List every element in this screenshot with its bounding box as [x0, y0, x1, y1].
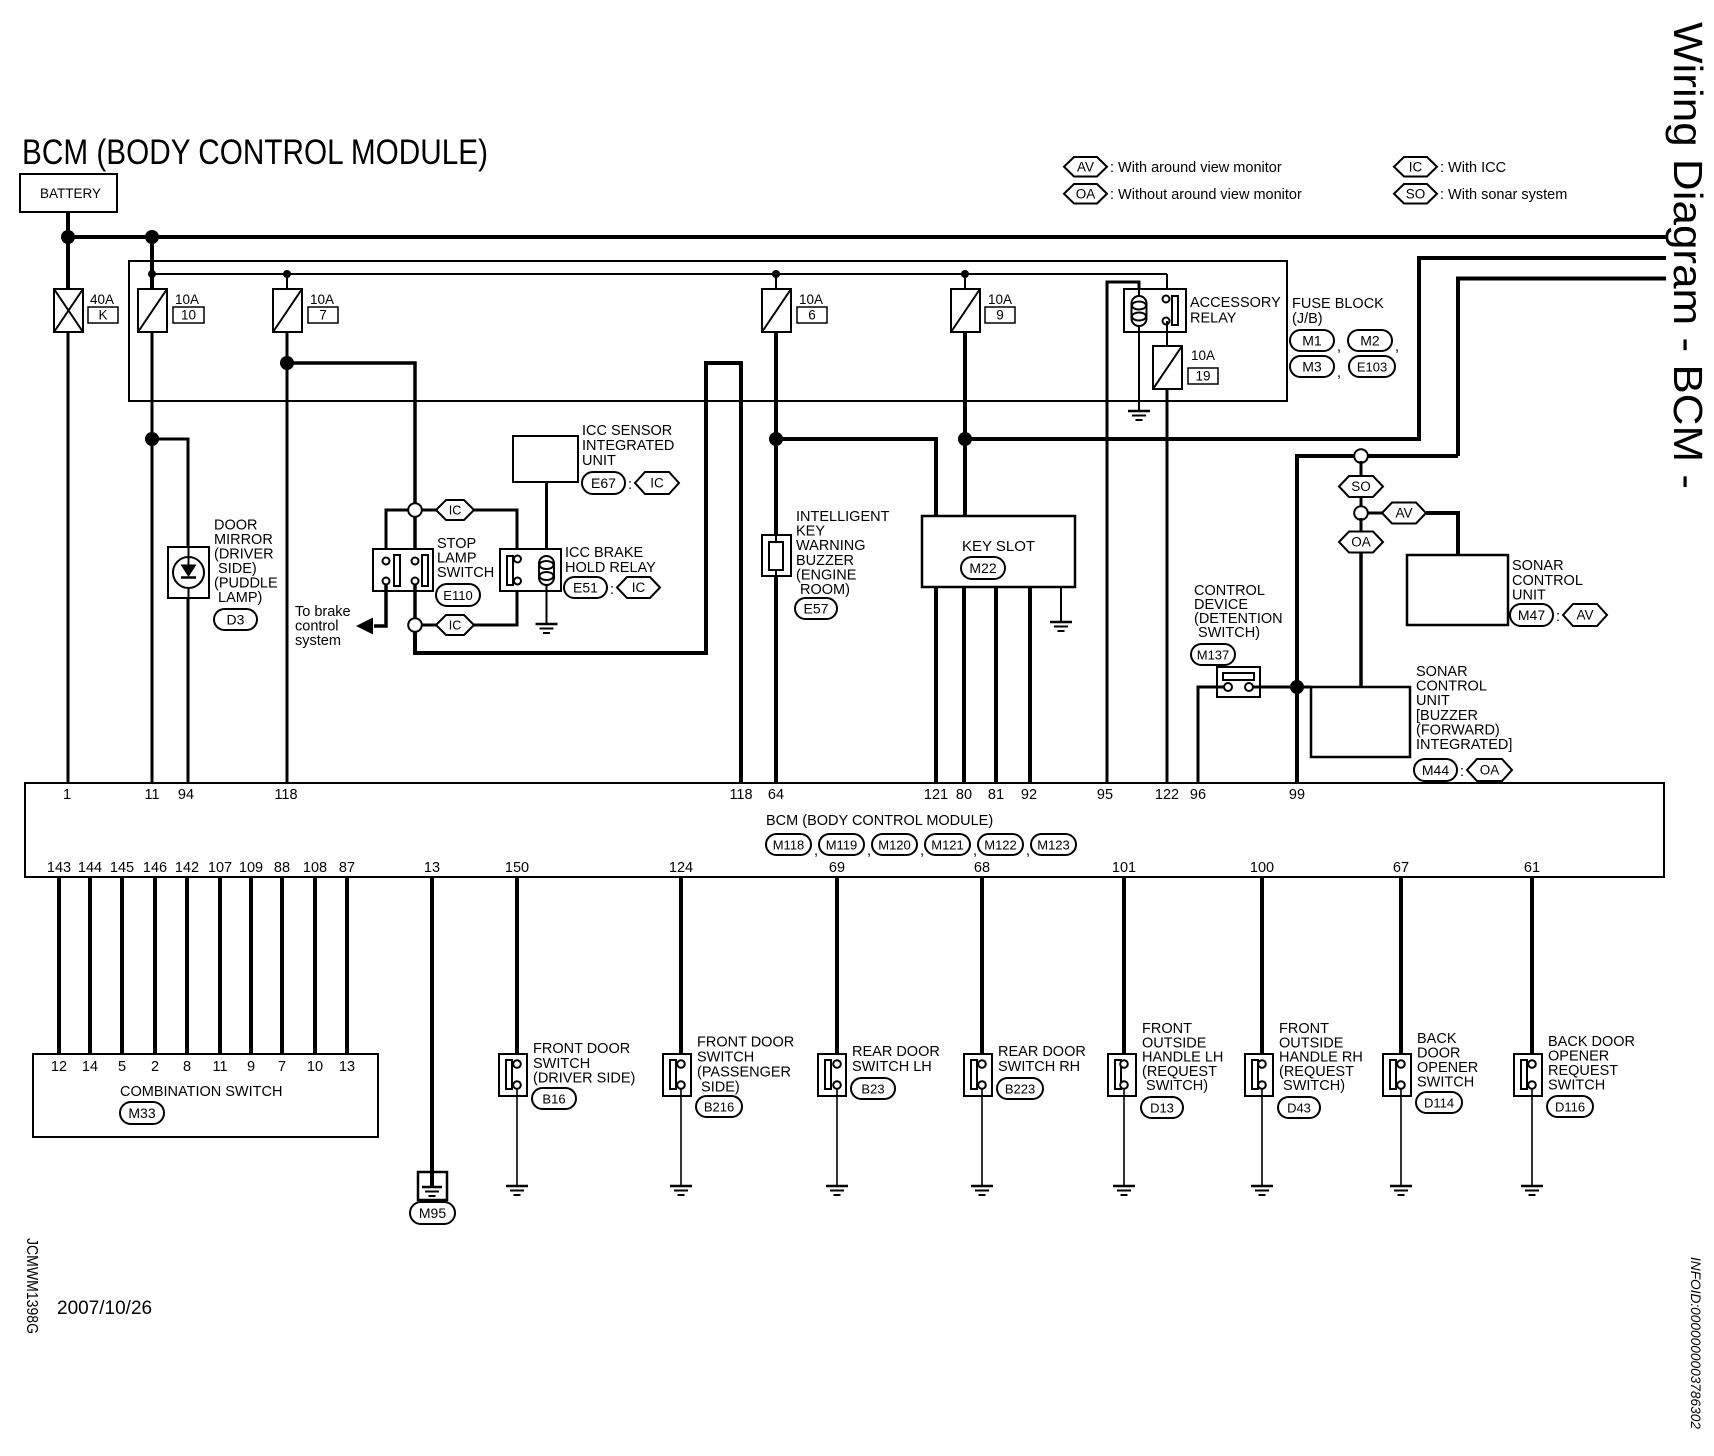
connector E67 — [582, 472, 625, 494]
svg-text:D116: D116 — [1555, 1099, 1585, 1114]
control device (detention switch) — [1217, 667, 1260, 697]
BCM (body control module) box — [25, 783, 1664, 877]
svg-text:SO: SO — [1351, 479, 1371, 494]
wire junction to lower IC tag — [421, 624, 436, 627]
svg-text:80: 80 — [956, 787, 972, 803]
ICC brake hold relay — [500, 549, 561, 591]
svg-text:12: 12 — [51, 1059, 67, 1075]
junction bus / battery — [61, 230, 75, 244]
svg-text::: : — [1556, 609, 1560, 625]
svg-text:INTEGRATED: INTEGRATED — [582, 438, 674, 454]
BCM top pin numbers — [63, 787, 1305, 803]
fuse 10A #10 — [138, 289, 167, 332]
sonar control unit label — [1512, 558, 1583, 604]
svg-text:INTELLIGENT: INTELLIGENT — [796, 509, 890, 525]
ground front outside handle RH request switch — [1251, 1186, 1273, 1195]
wire BCM to combination switch at x=220 — [218, 877, 222, 1054]
fuse block (J/B) outline — [129, 261, 1287, 401]
svg-text:124: 124 — [669, 860, 693, 876]
junction sonar option branch — [1354, 449, 1368, 463]
svg-text:D13: D13 — [1150, 1100, 1174, 1115]
wire fuse 9 to key slot — [963, 332, 967, 516]
connector M1 — [1290, 330, 1334, 351]
wire ICC sensor to ICC relay coil — [545, 482, 548, 556]
fuse 7 designator — [308, 307, 338, 323]
option tag IC (ICC sensor) — [635, 472, 679, 494]
svg-text:: With ICC: : With ICC — [1440, 160, 1506, 176]
svg-text:SWITCH: SWITCH — [533, 1056, 590, 1072]
svg-text:M95: M95 — [419, 1205, 446, 1221]
svg-text:M122: M122 — [984, 837, 1017, 852]
wire feed to fuse 6 — [775, 274, 777, 290]
stop lamp switch label — [437, 536, 494, 581]
junction bus / fuse 10 feed — [145, 230, 159, 244]
option tag OA (buzzer unit) — [1467, 759, 1512, 781]
junction control device / pin 99 — [1290, 680, 1304, 694]
svg-text:FUSE BLOCK: FUSE BLOCK — [1292, 296, 1384, 312]
svg-text:M33: M33 — [128, 1105, 155, 1121]
ground rear door switch LH — [826, 1186, 848, 1195]
key slot — [922, 516, 1075, 587]
wire split to AV tag — [1366, 512, 1382, 515]
wire acc relay coil bottom stub — [1138, 326, 1140, 332]
option tag IC (stop lamp top) — [436, 500, 474, 520]
svg-text:118: 118 — [729, 787, 752, 803]
option tag SO — [1339, 476, 1383, 497]
wire BCM pin 95 to acc relay coil — [1107, 282, 1139, 783]
combination switch — [33, 1054, 378, 1137]
connector M2 — [1348, 330, 1392, 351]
front outside handle LH request switch — [1108, 1054, 1136, 1096]
connector M22 — [961, 557, 1005, 579]
svg-text:IC: IC — [1409, 159, 1423, 174]
back door opener switch label — [1417, 1031, 1478, 1091]
front outside handle RH request switch — [1245, 1054, 1273, 1096]
connector B23 — [851, 1078, 895, 1099]
wire back door opener switch to ground — [1400, 1089, 1402, 1186]
connector M123 — [1031, 834, 1076, 855]
svg-text:,: , — [1337, 365, 1341, 381]
wire to brake control system — [374, 585, 386, 626]
back door opener switch — [1383, 1054, 1411, 1096]
svg-text:: Without around view monitor: : Without around view monitor — [1110, 187, 1302, 203]
svg-text:,: , — [1026, 843, 1030, 859]
svg-text::: : — [1460, 764, 1464, 780]
to brake control system label — [295, 604, 351, 649]
svg-text::: : — [628, 477, 632, 493]
connector M137 — [1191, 644, 1235, 665]
svg-text:E51: E51 — [573, 579, 598, 595]
svg-text:M118: M118 — [773, 837, 805, 852]
front outside handle LH request switch label — [1142, 1021, 1223, 1094]
svg-text:10A: 10A — [799, 292, 823, 307]
fuse block inner feed wire — [152, 273, 1167, 275]
option tag IC (stop lamp bottom) — [436, 615, 474, 635]
connector M121 — [925, 834, 970, 855]
wire battery to fuse K — [66, 212, 70, 291]
svg-text:99: 99 — [1289, 787, 1305, 803]
wire SO tag to split — [1360, 497, 1363, 508]
wire fuse K to BCM pin 1 — [67, 332, 70, 783]
svg-text:109: 109 — [239, 860, 263, 876]
svg-text:,: , — [920, 843, 924, 859]
svg-text:[BUZZER: [BUZZER — [1416, 708, 1478, 724]
svg-text:AV: AV — [1077, 159, 1094, 174]
wire stop lamp switch to lower junction — [413, 585, 417, 620]
svg-text:Wiring Diagram - BCM -: Wiring Diagram - BCM - — [1665, 22, 1711, 489]
ICC brake hold relay label — [565, 545, 656, 576]
svg-text:64: 64 — [768, 787, 784, 803]
wire feed to fuse 9 — [964, 274, 966, 290]
wire key slot to ground — [1060, 587, 1062, 622]
connector D13 — [1141, 1097, 1183, 1118]
wire front door switch passenger side to ground — [680, 1089, 682, 1186]
svg-text:121: 121 — [924, 787, 948, 803]
svg-text:KEY: KEY — [796, 524, 825, 540]
wire BCM to front door switch driver side — [515, 877, 519, 1060]
rear door switch RH — [964, 1054, 992, 1096]
svg-text:SONAR: SONAR — [1416, 664, 1468, 680]
svg-text:E103: E103 — [1357, 359, 1387, 374]
svg-text:B16: B16 — [542, 1091, 565, 1106]
connector M3 — [1290, 356, 1334, 377]
legend IC option tag — [1394, 157, 1437, 177]
svg-text:RELAY: RELAY — [1190, 310, 1237, 326]
connector M120 — [872, 834, 917, 855]
svg-text:INTEGRATED]: INTEGRATED] — [1416, 737, 1512, 753]
connector M33 — [120, 1102, 164, 1124]
wire front door switch driver side to ground — [516, 1089, 518, 1186]
connector M122 — [978, 834, 1023, 855]
fuse 19 designator — [1188, 368, 1218, 384]
fuse 40A K — [54, 289, 83, 332]
connector D114 — [1416, 1092, 1462, 1113]
svg-text:SWITCH RH: SWITCH RH — [998, 1059, 1080, 1075]
fuse 10 designator — [173, 307, 204, 323]
wire BCM to combination switch at x=187 — [185, 877, 189, 1054]
wire branch to key slot pin — [776, 439, 936, 516]
svg-text:(J/B): (J/B) — [1292, 311, 1323, 327]
wire back door opener request switch to ground — [1531, 1089, 1533, 1186]
svg-text:13: 13 — [339, 1059, 355, 1075]
fuse 10A #7 — [273, 289, 302, 332]
svg-text:D43: D43 — [1287, 1100, 1311, 1115]
wire fuse 6 to buzzer to BCM pin 64 — [774, 332, 778, 783]
svg-text:,: , — [1395, 339, 1399, 355]
svg-text:HOLD RELAY: HOLD RELAY — [565, 560, 656, 576]
svg-text:2007/10/26: 2007/10/26 — [57, 1298, 152, 1319]
wire to SO tag — [1360, 461, 1363, 476]
svg-text:7: 7 — [278, 1059, 286, 1075]
svg-text:OA: OA — [1480, 763, 1500, 778]
svg-text:K: K — [98, 308, 107, 323]
wire BCM to combination switch at x=315 — [313, 877, 317, 1054]
svg-text:AV: AV — [1576, 608, 1593, 623]
svg-text:,: , — [867, 843, 871, 859]
fuse 10A #9 — [951, 289, 980, 332]
wire acc relay coil top stub — [1138, 289, 1140, 296]
svg-text:146: 146 — [143, 860, 167, 876]
body ground M95 — [418, 1172, 447, 1200]
connector E57 — [795, 598, 837, 619]
option tag OA — [1339, 532, 1383, 553]
svg-text:M3: M3 — [1302, 358, 1322, 374]
ground back door opener switch — [1390, 1186, 1412, 1195]
intelligent key warning buzzer — [762, 535, 791, 576]
junction AV/OA split — [1354, 506, 1368, 520]
svg-text:69: 69 — [829, 860, 845, 876]
connector M95 — [410, 1202, 455, 1224]
svg-text:UNIT: UNIT — [582, 453, 616, 469]
svg-text:SWITCH LH: SWITCH LH — [852, 1059, 932, 1075]
svg-text:(PASSENGER: (PASSENGER — [697, 1065, 791, 1081]
svg-text:AV: AV — [1395, 506, 1412, 521]
junction inner feed / fuse 10 — [148, 270, 156, 278]
svg-text:13: 13 — [424, 860, 440, 876]
svg-text:SWITCH: SWITCH — [697, 1050, 754, 1066]
svg-text:BATTERY: BATTERY — [40, 186, 101, 201]
sonar control unit — [1407, 555, 1508, 625]
svg-text:M47: M47 — [1518, 607, 1545, 623]
svg-text:REAR DOOR: REAR DOOR — [852, 1044, 940, 1060]
svg-text:SIDE): SIDE) — [697, 1080, 740, 1096]
BCM bottom pin numbers — [47, 860, 1540, 876]
svg-text:61: 61 — [1524, 860, 1540, 876]
door mirror label — [214, 518, 278, 607]
svg-text:,: , — [973, 843, 977, 859]
svg-text:(ENGINE: (ENGINE — [796, 567, 857, 583]
svg-text:107: 107 — [208, 860, 232, 876]
svg-text:67: 67 — [1393, 860, 1409, 876]
wire stop lamp output to BCM pin 118 — [415, 363, 741, 783]
svg-text:M2: M2 — [1360, 332, 1380, 348]
connector E51 — [564, 577, 607, 598]
ICC sensor integrated unit label — [582, 423, 674, 469]
ground rear door switch RH — [971, 1186, 993, 1195]
option tag AV (sonar unit) — [1563, 604, 1607, 626]
wire BCM to combination switch at x=347 — [345, 877, 349, 1054]
svg-text:142: 142 — [175, 860, 199, 876]
svg-text:E67: E67 — [591, 475, 616, 491]
back door opener request switch label — [1548, 1034, 1635, 1094]
wire AV tag to sonar control unit — [1426, 513, 1458, 555]
front door switch driver side — [499, 1054, 527, 1096]
svg-text:81: 81 — [988, 787, 1004, 803]
wire acc relay coil to ground — [1138, 332, 1140, 411]
svg-text:SO: SO — [1406, 186, 1426, 201]
front door switch passenger side label — [697, 1035, 794, 1096]
svg-text:M119: M119 — [826, 837, 858, 852]
door mirror (driver side) (puddle lamp) — [168, 547, 209, 598]
wire key slot to BCM pin 121 — [934, 587, 938, 783]
stop lamp switch — [373, 549, 433, 591]
svg-text:D114: D114 — [1424, 1095, 1454, 1110]
svg-text::: : — [610, 582, 614, 598]
svg-text:COMBINATION SWITCH: COMBINATION SWITCH — [120, 1084, 282, 1100]
ground key slot — [1050, 622, 1072, 631]
svg-text:108: 108 — [303, 860, 327, 876]
wire fuse 7 branch to stop lamp switch — [287, 363, 415, 506]
connector M119 — [819, 834, 864, 855]
svg-text:,: , — [1337, 339, 1341, 355]
fuse 9 designator — [985, 307, 1015, 323]
svg-text:IC: IC — [650, 476, 664, 491]
svg-text:M123: M123 — [1037, 837, 1070, 852]
wire ICC relay coil to ground — [546, 585, 548, 624]
svg-text:11: 11 — [144, 787, 159, 803]
fuse block label — [1292, 296, 1384, 327]
svg-text:WARNING: WARNING — [796, 538, 866, 554]
wire BCM to combination switch at x=155 — [153, 877, 157, 1054]
wire ICC relay contact to lower IC tag — [474, 581, 517, 625]
wire to stop lamp switch terminal — [413, 515, 417, 557]
svg-text:10: 10 — [181, 308, 196, 323]
svg-text:ICC SENSOR: ICC SENSOR — [582, 423, 672, 439]
svg-text:10A: 10A — [175, 292, 199, 307]
option tag IC (ICC relay) — [617, 577, 660, 598]
svg-text:JCMWM1398G: JCMWM1398G — [23, 1238, 40, 1334]
svg-text:IC: IC — [632, 580, 646, 595]
intelligent key warning buzzer label — [796, 509, 890, 598]
svg-text:SWITCH): SWITCH) — [1142, 1078, 1208, 1094]
accessory relay contact — [1163, 296, 1179, 326]
wire BCM to front outside handle LH request switch — [1122, 877, 1126, 1060]
svg-text:system: system — [295, 633, 341, 649]
svg-text:INFOID:0000000003786302: INFOID:0000000003786302 — [1688, 1257, 1703, 1429]
fuse 6 designator — [797, 307, 827, 323]
svg-text:: With around view monitor: : With around view monitor — [1110, 160, 1282, 176]
svg-text:M44: M44 — [1422, 762, 1449, 778]
svg-text:100: 100 — [1250, 860, 1274, 876]
svg-text:FRONT DOOR: FRONT DOOR — [533, 1041, 630, 1057]
svg-text:ICC BRAKE: ICC BRAKE — [565, 545, 643, 561]
connector D116 — [1547, 1096, 1593, 1117]
connector M47 — [1510, 604, 1553, 626]
connector B216 — [696, 1096, 742, 1117]
wire BCM to rear door switch LH — [835, 877, 839, 1060]
svg-text:68: 68 — [974, 860, 990, 876]
wire IC tag to ICC relay contact — [474, 510, 517, 556]
wire fuse 9 branch to right edge — [965, 258, 1666, 439]
control device label — [1194, 583, 1283, 641]
wire option feed from right edge — [1458, 279, 1666, 457]
svg-text:CONTROL: CONTROL — [1512, 573, 1583, 589]
wire branch to door mirror — [152, 439, 188, 547]
svg-text:101: 101 — [1112, 860, 1136, 876]
connector E110 — [436, 584, 480, 606]
svg-text:UNIT: UNIT — [1416, 693, 1450, 709]
svg-text:SWITCH): SWITCH) — [1279, 1078, 1345, 1094]
svg-text:SWITCH: SWITCH — [1417, 1075, 1474, 1091]
svg-text:D3: D3 — [227, 611, 245, 627]
svg-text:(FORWARD): (FORWARD) — [1416, 722, 1500, 738]
svg-text:LAMP): LAMP) — [214, 590, 262, 606]
wire BCM to combination switch at x=282 — [280, 877, 284, 1054]
wire front outside handle RH request switch to ground — [1261, 1089, 1263, 1186]
svg-text:IC: IC — [449, 504, 462, 518]
wire BCM to combination switch at x=59 — [57, 877, 61, 1054]
connector M118 — [766, 834, 811, 855]
svg-text:10A: 10A — [1191, 348, 1215, 363]
svg-text:M121: M121 — [931, 837, 964, 852]
wire BCM to combination switch at x=90 — [88, 877, 92, 1054]
svg-text:2: 2 — [151, 1059, 159, 1075]
wire BCM to rear door switch RH — [980, 877, 984, 1060]
svg-text:BCM (BODY CONTROL MODULE): BCM (BODY CONTROL MODULE) — [766, 813, 993, 829]
wire inner feed to relay contact — [1166, 274, 1168, 299]
wire fuse 7 to BCM pin 118 — [286, 332, 289, 783]
svg-text:96: 96 — [1190, 787, 1206, 803]
accessory relay coil — [1132, 296, 1147, 326]
connector B223 — [997, 1078, 1043, 1099]
svg-text:87: 87 — [339, 860, 355, 876]
wire control device to BCM pin 96 — [1198, 687, 1224, 783]
wire BCM to back door opener switch — [1399, 877, 1403, 1060]
svg-text:9: 9 — [247, 1059, 255, 1075]
wire BCM to front outside handle RH request switch — [1260, 877, 1264, 1060]
junction option split upper — [408, 503, 422, 517]
svg-text:REAR DOOR: REAR DOOR — [998, 1044, 1086, 1060]
wire door mirror to BCM pin 94 — [187, 598, 190, 783]
legend AV option tag — [1064, 157, 1107, 177]
rear door switch LH label — [852, 1044, 940, 1075]
svg-text:95: 95 — [1097, 787, 1113, 803]
wire OA tag to sonar buzzer unit — [1359, 553, 1363, 688]
legend OA option tag — [1064, 184, 1107, 204]
svg-text:B223: B223 — [1005, 1081, 1035, 1096]
wire BCM to combination switch at x=251 — [249, 877, 253, 1054]
junction inner feed / fuse 7 — [283, 270, 291, 278]
junction inner feed / fuse 6 — [772, 270, 780, 278]
svg-text:,: , — [814, 843, 818, 859]
svg-text:118: 118 — [274, 787, 297, 803]
svg-text:19: 19 — [1195, 369, 1210, 384]
fuse 10A #19 — [1153, 346, 1182, 389]
connector B16 — [532, 1088, 576, 1109]
svg-text:M137: M137 — [1197, 647, 1230, 662]
arrow to brake control system — [356, 618, 373, 635]
legend SO option tag — [1394, 184, 1437, 204]
ground front outside handle LH request switch — [1113, 1186, 1135, 1195]
svg-text:10A: 10A — [310, 292, 334, 307]
connector M44 — [1414, 759, 1457, 781]
svg-text:145: 145 — [110, 860, 134, 876]
svg-text:88: 88 — [274, 860, 290, 876]
svg-text:150: 150 — [505, 860, 529, 876]
wire front outside handle LH request switch to ground — [1123, 1089, 1125, 1186]
wire BCM pin 13 to body ground M95 — [430, 877, 434, 1187]
junction stop lamp branch — [280, 356, 294, 370]
svg-text:OA: OA — [1351, 535, 1371, 550]
junction key slot branch — [769, 432, 783, 446]
svg-text:UNIT: UNIT — [1512, 588, 1546, 604]
front door switch passenger side — [663, 1054, 691, 1096]
fuse 10A #6 — [762, 289, 791, 332]
svg-text:CONTROL: CONTROL — [1416, 679, 1487, 695]
accessory relay label — [1190, 295, 1281, 326]
wire BCM to combination switch at x=122 — [120, 877, 124, 1054]
svg-text:1: 1 — [63, 787, 71, 803]
svg-text:BUZZER: BUZZER — [796, 553, 854, 569]
svg-text:IC: IC — [449, 619, 462, 633]
accessory relay — [1124, 289, 1186, 332]
svg-text:M120: M120 — [878, 837, 911, 852]
svg-text:ACCESSORY: ACCESSORY — [1190, 295, 1281, 311]
svg-text:5: 5 — [118, 1059, 126, 1075]
svg-text:7: 7 — [319, 308, 327, 323]
ground back door opener request switch — [1521, 1186, 1543, 1195]
ground front door switch passenger side — [670, 1186, 692, 1195]
